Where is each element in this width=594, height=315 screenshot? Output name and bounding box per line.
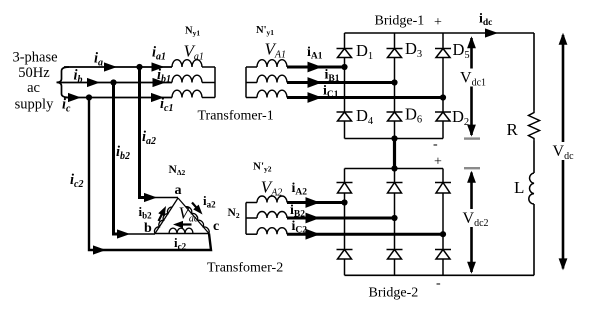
arrow i_b2 inside delta [159,211,164,221]
resistor R [529,110,540,141]
svg-text:supply: supply [15,97,54,113]
wire L to bottom rail [533,204,535,275]
wire phase-b supply [58,82,173,84]
arrow into node b [117,229,130,238]
winding T2 secondary phase C [257,228,287,235]
node bridge2 leg2 input [391,215,397,221]
svg-text:50Hz: 50Hz [18,65,50,81]
arrow V_dc measure [562,35,565,269]
diode bridge2 bottom leg3 [435,250,451,260]
wire bridge2 leg3 [442,169,444,276]
svg-text:b: b [144,221,152,236]
wire bridge1 leg1 [344,33,346,139]
supply brace [57,67,70,98]
wire load top corner [533,33,535,110]
diode D1 [337,49,353,58]
wire bridge2 bottom rail [345,274,535,276]
wire i_a2 drop [140,67,147,198]
svg-text:Transfomer-2: Transfomer-2 [207,261,283,276]
wire T1 secondary star bus [245,67,247,98]
arrow i_b [87,78,100,87]
wire i_B2 to bridge2 leg2 [287,217,395,220]
wire i_A2 to bridge2 leg1 [287,201,345,204]
arrow i_B1 [308,77,323,88]
diode D2 [435,112,451,121]
arrow V_dc1 measure [470,38,473,135]
arrow i_A1 [308,62,323,73]
winding T1 primary phase a [172,60,202,67]
wire bridge2 leg2 [394,169,396,276]
wire R to L [533,141,535,173]
diode bridge2 bottom leg1 [337,250,353,260]
arrow into node a [144,193,157,202]
svg-text:ac: ac [27,80,40,96]
diode D5 [435,49,451,58]
arrow i_c [68,93,81,102]
wire T1 primary leads to star point [202,66,215,68]
node phase-a tap [136,64,142,70]
svg-text:Bridge-2: Bridge-2 [369,286,419,301]
svg-text:R: R [507,120,519,139]
diode D3 [387,49,403,58]
node bridge1 leg1 input [341,64,347,70]
svg-text:L: L [514,178,524,197]
winding T1 primary phase c [172,90,202,97]
wire bridge1 leg3 [442,33,444,139]
wire bridge1 top rail [345,32,535,34]
node bridge2 leg1 input [341,199,347,205]
arrow on i_c2 bottom run [93,245,106,254]
arrow i_c2 inside delta [178,223,192,225]
winding T2 secondary phase A [257,196,287,203]
label 3-phase 50Hz ac supply [12,50,57,113]
wire i_c2 drop and bottom run [89,98,211,251]
arrow i_a2 inside delta [192,203,199,211]
svg-text:Bridge-1: Bridge-1 [375,14,425,29]
bar V_dc2 reference [464,167,480,169]
arrow V_dc2 measure [470,173,473,273]
winding delta side a-c [178,198,209,234]
diode D4 [337,112,353,121]
wire bridge2 leg1 [344,169,346,276]
svg-text:Transfomer-1: Transfomer-1 [198,109,274,124]
node bridge2 top mid [391,165,397,171]
arrow i_B2 [306,213,321,224]
bar V_dc1 reference [464,137,480,139]
arrow i_b1 [153,78,166,87]
node bridge2 leg3 input [440,231,446,237]
wire bridge1 leg2 [394,33,396,139]
diode bridge2 top leg1 [337,183,353,194]
svg-text:a: a [175,183,182,198]
arrow i_a1 [152,62,165,71]
node bridge1 bottom mid [391,135,397,141]
arrow i_a [104,62,117,71]
arrow i_C1 [308,92,323,103]
svg-text:3-phase: 3-phase [12,50,57,66]
wire bridge1 to bridge2 link [393,139,396,169]
diode bridge2 bottom leg2 [387,250,403,260]
svg-text:-: - [433,137,438,152]
svg-text:c: c [213,219,219,234]
winding T2 secondary phase B [257,212,287,218]
wire i_b2 drop [114,83,121,235]
node phase-c tap [86,94,92,100]
winding T1 secondary phase C [257,90,287,97]
wire i_C1 to bridge1 leg3 [287,96,443,99]
diode D6 [387,112,403,121]
winding T1 primary phase b [172,75,202,82]
arrow i_dc [485,28,498,37]
winding T1 secondary phase B [257,75,287,82]
winding delta side a-b [155,198,178,234]
wire i_A1 to bridge1 leg1 [287,66,345,69]
arrow i_c1 [151,93,164,102]
node bridge1 leg2 input [391,79,397,85]
wire bridge2 top rail [345,168,444,170]
wire T2 secondary star bus [245,203,247,235]
wire T1 primary star bus [214,67,216,98]
inductor L [529,173,534,204]
wire phase-a supply [64,66,172,68]
wire i_C2 to bridge2 leg3 [287,233,443,236]
winding delta side b-c [155,233,209,235]
arrow i_C2 [306,229,321,240]
diode bridge2 top leg3 [435,183,451,194]
svg-text:-: - [436,276,441,291]
node bridge1 leg3 input [440,94,446,100]
wire bridge1 bottom rail [345,138,444,140]
svg-text:+: + [434,155,442,170]
wire phase-c supply [64,97,172,99]
diode bridge2 top leg2 [387,183,403,194]
node phase-b tap [110,79,116,85]
arrow i_A2 [306,197,321,208]
winding T1 secondary phase A [257,60,287,67]
svg-text:+: + [434,15,442,30]
wire i_B1 to bridge1 leg2 [287,81,395,84]
